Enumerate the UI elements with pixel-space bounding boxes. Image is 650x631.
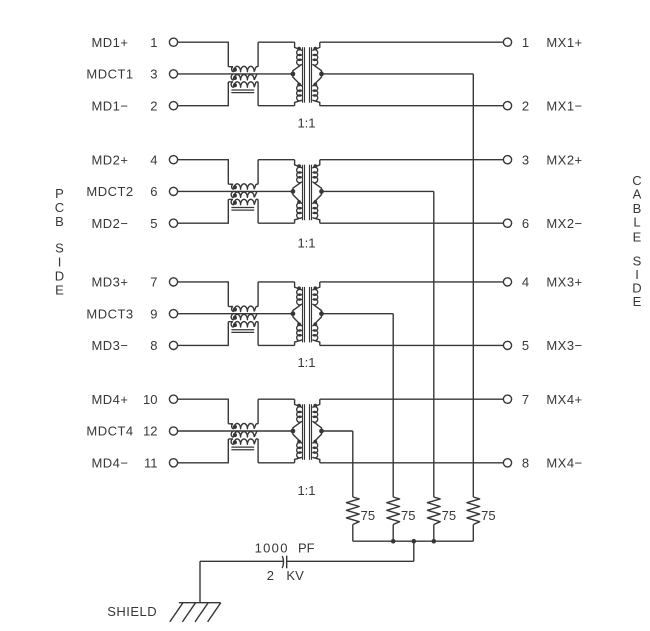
svg-text:4: 4 [150, 152, 157, 167]
terminal circle pin 5 (cable side) [503, 341, 511, 349]
terminal circle pin 3 (cable side) [503, 156, 511, 164]
common-mode choke L4 [228, 399, 258, 463]
svg-text:MD2+: MD2+ [91, 152, 128, 167]
svg-text:MX1+: MX1+ [546, 35, 582, 50]
wire bus to capacitor [413, 541, 415, 561]
resistor R2 75Ω [387, 497, 400, 525]
wire MD3+ to choke [178, 281, 229, 283]
svg-text:5: 5 [150, 216, 157, 231]
svg-text:MD3−: MD3− [91, 338, 128, 353]
svg-text:E: E [55, 282, 64, 297]
svg-text:MD3+: MD3+ [91, 275, 128, 290]
svg-text:1:1: 1:1 [297, 355, 315, 370]
svg-text:MDCT4: MDCT4 [86, 424, 133, 439]
capacitor C1 1000 PF 2 KV [282, 556, 283, 568]
svg-text:I: I [58, 255, 62, 270]
svg-text:3: 3 [522, 152, 529, 167]
common-mode choke L2 [228, 160, 258, 224]
terminal circle pin 5 (PCB side) [169, 219, 177, 227]
svg-text:5: 5 [522, 338, 529, 353]
resistor R4 75Ω [467, 497, 480, 525]
wire secondary center tap of T1 to R4 [322, 73, 474, 75]
wire MD3− to choke [178, 344, 229, 346]
svg-text:3: 3 [150, 67, 157, 82]
junction dot (cap branch to bus) [412, 539, 417, 544]
svg-text:SHIELD: SHIELD [107, 604, 157, 619]
wire secondary bottom to MX1− [320, 105, 504, 107]
wire choke to transformer (bottom) [258, 462, 295, 464]
terminal circle pin 10 (PCB side) [169, 395, 177, 403]
svg-text:L: L [633, 215, 640, 230]
terminal circle pin 2 (PCB side) [169, 102, 177, 110]
svg-text:12: 12 [143, 424, 157, 439]
svg-text:MD4−: MD4− [91, 455, 128, 470]
svg-text:MD2−: MD2− [91, 216, 128, 231]
wire choke to transformer (bottom) [258, 222, 295, 224]
svg-text:4: 4 [522, 275, 529, 290]
svg-text:MX2−: MX2− [546, 216, 582, 231]
svg-text:P: P [55, 186, 64, 201]
svg-text:75: 75 [481, 508, 495, 523]
svg-text:KV: KV [286, 568, 304, 583]
svg-text:7: 7 [522, 392, 529, 407]
svg-text:E: E [633, 230, 642, 245]
svg-text:75: 75 [442, 508, 456, 523]
svg-text:MX2+: MX2+ [546, 152, 582, 167]
transformer T2 [291, 160, 324, 224]
terminal circle pin 2 (cable side) [503, 102, 511, 110]
caption PCB SIDE (vertical) [55, 186, 64, 297]
wire secondary top to MX2+ [320, 159, 504, 161]
svg-text:MDCT2: MDCT2 [86, 184, 133, 199]
resistor R3 75Ω [427, 497, 440, 525]
wire secondary bottom to MX3− [320, 344, 504, 346]
caption CABLE SIDE (vertical) [632, 173, 641, 309]
svg-text:PF: PF [298, 541, 315, 556]
wire secondary bottom to MX2− [320, 222, 504, 224]
wire MD4− to choke [178, 462, 229, 464]
terminal circle pin 7 (cable side) [503, 395, 511, 403]
terminal circle pin 1 (PCB side) [169, 38, 177, 46]
svg-text:1000: 1000 [255, 541, 289, 556]
terminal circle pin 12 (PCB side) [169, 427, 177, 435]
svg-text:7: 7 [150, 275, 157, 290]
svg-text:MD4+: MD4+ [91, 392, 128, 407]
svg-text:D: D [55, 268, 64, 283]
terminal circle pin 6 (cable side) [503, 219, 511, 227]
ground (shield earth symbol) [170, 603, 221, 622]
wire secondary top to MX1+ [320, 41, 504, 43]
terminal circle pin 8 (cable side) [503, 459, 511, 467]
svg-text:MX4−: MX4− [546, 455, 582, 470]
wire secondary top to MX4+ [320, 398, 504, 400]
svg-text:MX1−: MX1− [546, 98, 582, 113]
svg-text:8: 8 [522, 455, 529, 470]
svg-text:1: 1 [522, 35, 529, 50]
wire choke to transformer (top) [258, 281, 295, 283]
wire MDCT4 to transformer center tap [178, 430, 293, 432]
wire secondary top to MX3+ [320, 281, 504, 283]
svg-text:MD1+: MD1+ [91, 35, 128, 50]
wire MD2− to choke [178, 222, 229, 224]
svg-text:2: 2 [522, 98, 529, 113]
wire MD2+ to choke [178, 159, 229, 161]
wire MD1− to choke [178, 105, 229, 107]
terminal circle pin 1 (cable side) [503, 38, 511, 46]
svg-text:1:1: 1:1 [297, 116, 315, 131]
wire MD1+ to choke [178, 41, 229, 43]
svg-text:10: 10 [143, 392, 157, 407]
transformer T3 [291, 282, 324, 346]
terminal circle pin 7 (PCB side) [169, 278, 177, 286]
transformer T1 [291, 42, 324, 105]
svg-text:9: 9 [150, 306, 157, 321]
svg-text:S: S [55, 241, 64, 256]
wire choke to transformer (top) [258, 159, 295, 161]
junction dot (R3 to bus) [391, 539, 396, 544]
svg-text:B: B [55, 214, 64, 229]
terminal circle pin 4 (cable side) [503, 278, 511, 286]
common-mode choke L1 [228, 42, 258, 105]
wire secondary center tap of T2 to R3 [322, 190, 434, 192]
svg-text:MDCT1: MDCT1 [86, 67, 133, 82]
svg-text:1:1: 1:1 [297, 235, 315, 250]
wire MDCT2 to transformer center tap [178, 190, 293, 192]
svg-text:75: 75 [361, 508, 375, 523]
svg-text:2: 2 [267, 568, 274, 583]
svg-text:75: 75 [401, 508, 415, 523]
wire choke to transformer (bottom) [258, 344, 295, 346]
svg-text:1:1: 1:1 [297, 483, 315, 498]
wire secondary center tap of T3 to R2 [322, 313, 394, 315]
wire secondary center tap of T4 to R1 [322, 430, 353, 432]
terminal circle pin 3 (PCB side) [169, 70, 177, 78]
terminal circle pin 9 (PCB side) [169, 310, 177, 318]
svg-text:11: 11 [144, 455, 158, 470]
svg-text:8: 8 [150, 338, 157, 353]
svg-text:C: C [55, 200, 64, 215]
wire MDCT3 to transformer center tap [178, 313, 293, 315]
junction dot (R2 to bus) [432, 539, 437, 544]
svg-text:MD1−: MD1− [91, 98, 128, 113]
terminal circle pin 8 (PCB side) [169, 341, 177, 349]
wire choke to transformer (bottom) [258, 105, 295, 107]
svg-text:A: A [633, 186, 642, 201]
resistor R1 75Ω [346, 497, 359, 525]
svg-text:2: 2 [150, 98, 157, 113]
wire secondary bottom to MX4− [320, 462, 504, 464]
common-mode choke L3 [228, 282, 258, 346]
wire choke to transformer (top) [258, 41, 295, 43]
svg-text:1: 1 [150, 35, 157, 50]
svg-text:6: 6 [150, 184, 157, 199]
wire choke to transformer (top) [258, 398, 295, 400]
wire capacitor to shield ground [200, 560, 284, 562]
svg-text:MDCT3: MDCT3 [86, 306, 133, 321]
wire resistor common bus [353, 540, 474, 542]
terminal circle pin 4 (PCB side) [169, 156, 177, 164]
svg-text:6: 6 [522, 216, 529, 231]
svg-text:MX3+: MX3+ [546, 275, 582, 290]
wire MDCT1 to transformer center tap [178, 73, 293, 75]
terminal circle pin 6 (PCB side) [169, 187, 177, 195]
terminal circle pin 11 (PCB side) [169, 459, 177, 467]
svg-text:E: E [633, 294, 642, 309]
svg-text:MX4+: MX4+ [546, 392, 582, 407]
wire MD4+ to choke [178, 398, 229, 400]
svg-text:MX3−: MX3− [546, 338, 582, 353]
transformer T4 [291, 399, 324, 463]
